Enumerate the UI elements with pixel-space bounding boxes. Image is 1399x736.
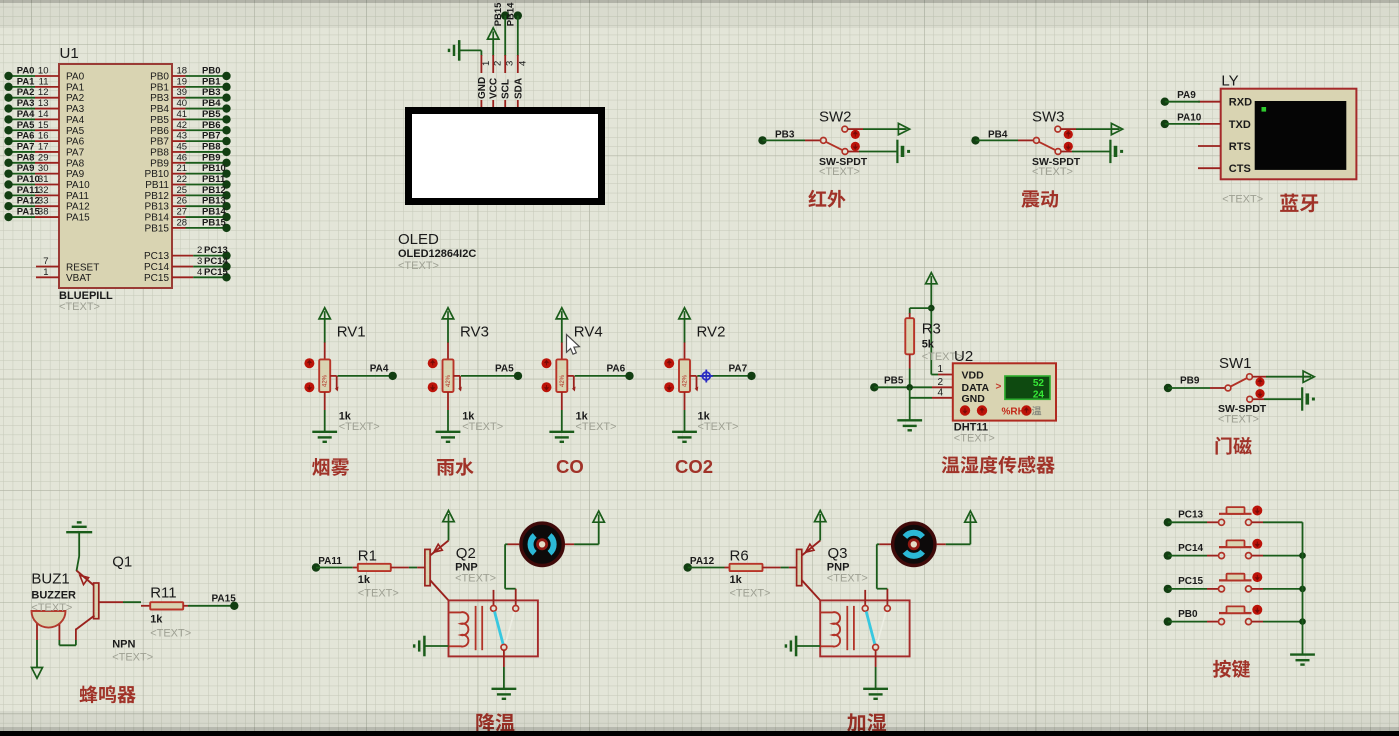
relay NC stub xyxy=(864,590,866,606)
ground (OLED GND pin) xyxy=(458,40,461,61)
power terminal (RV1 top) xyxy=(319,308,330,319)
wire button PB0 to bus xyxy=(1252,621,1263,623)
LY pin CTS xyxy=(1198,167,1221,169)
svg-text:5k: 5k xyxy=(922,339,935,351)
relay common stub xyxy=(515,589,517,606)
svg-text:PB11: PB11 xyxy=(145,180,169,191)
svg-text:PA9: PA9 xyxy=(66,169,85,180)
svg-text:PB14: PB14 xyxy=(202,207,226,218)
svg-text:1k: 1k xyxy=(358,574,371,586)
wire power to RV1 xyxy=(324,319,326,343)
U1 pin PB4 (pin 40) with wire and terminal xyxy=(172,108,186,110)
svg-text:PC13: PC13 xyxy=(1178,510,1203,521)
svg-text:1: 1 xyxy=(481,61,492,66)
U2 display readout xyxy=(1005,376,1050,399)
U1 pin PC13 (pin 2) with wire and terminal xyxy=(172,255,193,257)
resistor R3 xyxy=(909,313,911,318)
ground (RV3) xyxy=(436,431,461,433)
wire switch SW3 upper throw to power xyxy=(1061,128,1076,130)
svg-text:PA4: PA4 xyxy=(17,109,35,120)
transistor Q2 PNP xyxy=(425,549,430,585)
ground (RV2) xyxy=(672,431,697,433)
label 加湿 xyxy=(847,713,865,732)
svg-text:PB0: PB0 xyxy=(1178,609,1198,620)
terminal PB3 xyxy=(758,136,766,144)
svg-text:27: 27 xyxy=(177,207,188,218)
power terminal (RV2 top) xyxy=(679,308,690,319)
svg-text:SCL: SCL xyxy=(501,79,512,99)
label 雨水 xyxy=(437,459,454,476)
U1 pin PA15 (pin 38) with wire and terminal xyxy=(9,216,36,218)
svg-text:PC15: PC15 xyxy=(204,267,228,278)
svg-text:PA7: PA7 xyxy=(729,364,748,375)
svg-text:PA6: PA6 xyxy=(607,364,626,375)
label 蜂鸣器 xyxy=(80,685,98,703)
wire PA10 to LY TXD xyxy=(1165,123,1200,125)
power terminal (SW1 upper throw) xyxy=(1303,371,1314,382)
RV4 actuator indicators xyxy=(542,358,552,368)
LY pin RTS xyxy=(1198,145,1221,147)
LY screen xyxy=(1255,101,1347,170)
svg-text:PB3: PB3 xyxy=(775,129,795,140)
terminal PB4 xyxy=(971,136,979,144)
power terminal (motor) xyxy=(965,511,976,522)
potentiometer RV2 body xyxy=(679,359,690,392)
U1 pin PA0 (pin 10) with wire and terminal xyxy=(9,75,36,77)
relay moving contact xyxy=(501,644,507,650)
svg-text:PC15: PC15 xyxy=(144,273,169,284)
svg-text:PB5: PB5 xyxy=(884,376,904,387)
junction node on button bus xyxy=(1299,586,1306,593)
wire power to RV2 xyxy=(684,319,686,343)
switch SW3 actuator indicators xyxy=(1064,130,1073,139)
push button PC14 xyxy=(1219,553,1225,559)
OLED pin 3 SCL xyxy=(504,55,506,73)
svg-text:GND: GND xyxy=(962,393,986,405)
wire relay common to ground below xyxy=(503,650,505,667)
ground (U2) xyxy=(897,419,922,421)
button PC14 actuator indicator xyxy=(1252,539,1262,549)
svg-text:42%: 42% xyxy=(446,374,452,387)
svg-text:PB15: PB15 xyxy=(145,223,170,234)
RV4 wiper xyxy=(567,375,574,377)
wire PB9 to switch SW1 xyxy=(1168,387,1210,389)
U1 pin PB6 (pin 42) with wire and terminal xyxy=(172,129,186,131)
svg-text:40: 40 xyxy=(177,98,188,109)
button PC15 actuator indicator xyxy=(1252,572,1262,582)
label 烟雾 xyxy=(312,458,329,476)
U1 pin PB7 (pin 43) with wire and terminal xyxy=(172,140,186,142)
svg-text:52: 52 xyxy=(1033,378,1045,389)
relay coil xyxy=(449,612,469,646)
wire switch SW2 upper throw to power xyxy=(848,128,863,130)
svg-text:<TEXT>: <TEXT> xyxy=(1032,166,1073,178)
svg-text:PA9: PA9 xyxy=(1177,90,1196,101)
svg-text:42%: 42% xyxy=(560,374,566,387)
label 温湿度传感器 xyxy=(942,456,960,473)
svg-text:<TEXT>: <TEXT> xyxy=(827,573,868,585)
battery cell (SW1 lower throw) xyxy=(1301,387,1303,410)
svg-text:38: 38 xyxy=(38,207,49,218)
svg-text:<TEXT>: <TEXT> xyxy=(819,166,860,178)
wire PC14 to button xyxy=(1168,555,1207,557)
switch SW2 actuator indicators xyxy=(851,130,860,139)
wire VCC to OLED pin 2 xyxy=(492,39,494,56)
wire power to RV3 xyxy=(447,319,449,343)
svg-text:PA15: PA15 xyxy=(212,594,237,605)
svg-text:PB5: PB5 xyxy=(202,109,221,120)
svg-text:PA12: PA12 xyxy=(690,556,715,567)
svg-text:42: 42 xyxy=(177,120,188,131)
LY pin TXD xyxy=(1198,123,1221,125)
terminal PA7 xyxy=(747,372,755,380)
RV2 actuator indicators xyxy=(664,358,674,368)
svg-text:PB7: PB7 xyxy=(150,137,169,148)
terminal PA9 xyxy=(1161,98,1169,106)
svg-text:SW3: SW3 xyxy=(1032,109,1065,126)
svg-text:PB7: PB7 xyxy=(202,131,220,142)
svg-text:24: 24 xyxy=(1033,389,1045,400)
switch SW1 actuator indicators xyxy=(1255,377,1264,386)
svg-text:1k: 1k xyxy=(730,574,743,586)
U1 pin PC14 (pin 3) with wire and terminal xyxy=(172,266,193,268)
mouse cursor xyxy=(567,335,580,355)
terminal PA4 xyxy=(389,372,397,380)
transistor Q1 NPN xyxy=(77,571,95,587)
OLED pin 4 SDA xyxy=(517,55,519,73)
svg-text:PA15: PA15 xyxy=(66,213,90,224)
svg-text:12: 12 xyxy=(38,87,49,98)
svg-text:PA11: PA11 xyxy=(17,185,40,196)
svg-text:%RH: %RH xyxy=(1002,406,1025,417)
ground (relay common) xyxy=(863,688,888,690)
svg-text:25: 25 xyxy=(177,185,188,196)
svg-text:PB10: PB10 xyxy=(202,163,226,174)
resistor R1 xyxy=(358,564,391,571)
relay body xyxy=(820,600,909,656)
svg-text:11: 11 xyxy=(39,76,49,87)
svg-text:VBAT: VBAT xyxy=(66,273,91,284)
svg-text:PB1: PB1 xyxy=(150,82,169,93)
svg-text:SW1: SW1 xyxy=(1219,355,1252,372)
svg-text:14: 14 xyxy=(38,109,49,120)
label 红外 xyxy=(808,190,826,207)
wire switch SW3 lower throw to battery xyxy=(1061,151,1072,153)
svg-text:PA5: PA5 xyxy=(17,120,35,131)
junction node on button bus xyxy=(1299,552,1306,559)
svg-text:PB6: PB6 xyxy=(202,120,220,131)
U1 pin PB10 (pin 21) with wire and terminal xyxy=(172,173,186,175)
svg-text:RESET: RESET xyxy=(66,262,99,273)
relay NC stub xyxy=(493,590,495,606)
wire RV1 bottom to ground xyxy=(324,392,326,410)
svg-text:PB4: PB4 xyxy=(988,129,1008,140)
ground (buzzer emitter, inverted) xyxy=(66,531,92,533)
svg-text:PC15: PC15 xyxy=(1178,576,1203,587)
svg-text:3: 3 xyxy=(197,256,202,267)
svg-text:16: 16 xyxy=(38,131,49,142)
svg-text:PA8: PA8 xyxy=(17,152,35,163)
svg-text:Q1: Q1 xyxy=(112,554,132,571)
potentiometer RV1 body xyxy=(319,359,330,392)
potentiometer RV4 body xyxy=(556,359,567,392)
svg-text:R1: R1 xyxy=(358,548,377,565)
svg-text:PA5: PA5 xyxy=(66,126,85,137)
svg-text:PC13: PC13 xyxy=(204,245,228,256)
OLED pin 2 VCC xyxy=(492,55,494,73)
U1 pin PA9 (pin 30) with wire and terminal xyxy=(9,173,36,175)
U1 pin PA2 (pin 12) with wire and terminal xyxy=(9,97,36,99)
svg-text:39: 39 xyxy=(177,87,188,98)
origin marker on PA7 wire xyxy=(700,370,713,383)
microcontroller U1 BLUEPILL body xyxy=(59,64,172,288)
svg-text:TXD: TXD xyxy=(1229,119,1251,131)
ground (buttons) xyxy=(1290,653,1315,655)
button PC13 actuator indicator xyxy=(1252,506,1262,516)
svg-text:PA0: PA0 xyxy=(66,72,85,83)
ground (relay coil, rotated) xyxy=(795,636,798,657)
svg-text:1: 1 xyxy=(937,364,943,375)
terminal PC15 xyxy=(1164,585,1172,593)
wire PA11 to R1 xyxy=(316,567,353,569)
svg-text:>: > xyxy=(996,382,1002,393)
svg-text:PB15: PB15 xyxy=(202,217,226,228)
svg-text:PA10: PA10 xyxy=(17,174,40,185)
U1 pin PB0 (pin 18) with wire and terminal xyxy=(172,75,186,77)
power terminal (RV3 top) xyxy=(442,308,453,319)
terminal PA15 xyxy=(230,602,238,610)
power terminal (Q3 emitter) xyxy=(815,511,826,522)
svg-text:RV3: RV3 xyxy=(460,323,489,340)
svg-text:15: 15 xyxy=(38,120,49,131)
svg-text:PA3: PA3 xyxy=(17,98,35,109)
svg-text:PA7: PA7 xyxy=(66,147,85,158)
ground (RV1) xyxy=(312,431,337,433)
wire button PC13 to bus xyxy=(1252,521,1263,523)
svg-text:R6: R6 xyxy=(730,548,749,565)
svg-text:BUZZER: BUZZER xyxy=(31,590,76,602)
svg-text:RV4: RV4 xyxy=(574,323,603,340)
label 蓝牙 xyxy=(1280,194,1298,212)
power terminal (motor) xyxy=(593,511,604,522)
terminal PC14 xyxy=(1164,551,1172,559)
U1 pin PB8 (pin 45) with wire and terminal xyxy=(172,151,186,153)
wire R6 to Q3 base xyxy=(763,567,781,569)
wire relay common to ground below xyxy=(875,650,877,667)
button PB0 actuator indicator xyxy=(1252,605,1262,615)
wire R3 bottom to DATA junction xyxy=(909,369,911,388)
svg-text:26: 26 xyxy=(177,196,188,207)
svg-text:PA4: PA4 xyxy=(66,115,85,126)
svg-text:PB5: PB5 xyxy=(150,115,169,126)
wire PB15 to OLED pin 3 xyxy=(504,16,506,56)
svg-text:<TEXT>: <TEXT> xyxy=(954,433,995,445)
U1 pin PA6 (pin 16) with wire and terminal xyxy=(9,140,36,142)
relay core xyxy=(846,606,848,650)
svg-text:GND: GND xyxy=(477,77,488,99)
svg-text:SDA: SDA xyxy=(513,78,524,99)
svg-text:PA6: PA6 xyxy=(17,131,35,142)
svg-text:VCC: VCC xyxy=(489,78,500,99)
wire RV3 bottom to ground xyxy=(447,392,449,410)
svg-text:PA2: PA2 xyxy=(66,93,85,104)
svg-text:3: 3 xyxy=(505,61,516,66)
svg-text:19: 19 xyxy=(177,76,188,87)
svg-text:22: 22 xyxy=(177,174,188,185)
svg-text:PB8: PB8 xyxy=(150,147,169,158)
push button PC13 xyxy=(1219,519,1225,525)
svg-text:OLED12864I2C: OLED12864I2C xyxy=(398,248,476,260)
svg-text:<TEXT>: <TEXT> xyxy=(1222,194,1263,206)
svg-text:Q2: Q2 xyxy=(456,545,476,562)
svg-text:PA12: PA12 xyxy=(66,202,90,213)
svg-text:<TEXT>: <TEXT> xyxy=(31,602,72,614)
ground (relay coil, rotated) xyxy=(423,636,426,657)
svg-text:PA3: PA3 xyxy=(66,104,85,115)
svg-text:1: 1 xyxy=(43,267,48,278)
svg-text:4: 4 xyxy=(937,387,943,398)
wire motor right to power xyxy=(937,543,946,545)
RV3 wiper xyxy=(453,375,460,377)
wire PA12 to R6 xyxy=(688,567,725,569)
svg-text:Q3: Q3 xyxy=(828,545,848,562)
svg-text:4: 4 xyxy=(517,61,528,66)
resistor R6 xyxy=(730,564,763,571)
wire RV2 bottom to ground xyxy=(684,392,686,410)
U1 pin RESET (pin 7) xyxy=(36,266,59,268)
terminal PA10 xyxy=(1161,120,1169,128)
svg-text:CTS: CTS xyxy=(1229,163,1251,175)
wire SW1 lower throw to battery xyxy=(1253,398,1264,400)
label 震动 xyxy=(1021,190,1039,207)
svg-text:BUZ1: BUZ1 xyxy=(31,571,69,588)
U2 VDD pin wire xyxy=(931,374,938,376)
terminal PA5 xyxy=(514,372,522,380)
svg-text:PB4: PB4 xyxy=(202,98,221,109)
wire button PC15 to bus xyxy=(1252,588,1263,590)
svg-text:PA8: PA8 xyxy=(66,158,85,169)
wire RV1 wiper to PA4 xyxy=(338,375,393,377)
wire ground to Q1 emitter xyxy=(78,532,80,556)
svg-text:31: 31 xyxy=(38,174,49,185)
potentiometer RV3 body xyxy=(443,359,454,392)
svg-text:PA9: PA9 xyxy=(17,163,35,174)
wire coil ground xyxy=(796,645,820,647)
wire RV4 wiper to PA6 xyxy=(575,375,630,377)
svg-text:PC13: PC13 xyxy=(144,251,169,262)
U1 pin PB14 (pin 27) with wire and terminal xyxy=(172,216,186,218)
U1 pin PA10 (pin 31) with wire and terminal xyxy=(9,184,36,186)
U1 pin PA1 (pin 11) with wire and terminal xyxy=(9,86,36,88)
svg-text:1k: 1k xyxy=(150,614,163,626)
U2 actuator indicators xyxy=(960,405,970,415)
terminal PA12 xyxy=(684,563,692,571)
U1 pin PB12 (pin 25) with wire and terminal xyxy=(172,194,186,196)
svg-text:PB3: PB3 xyxy=(150,93,169,104)
U1 pin PB9 (pin 46) with wire and terminal xyxy=(172,162,186,164)
wire RV4 bottom to ground xyxy=(561,392,563,410)
wire R11 to PA15 xyxy=(188,605,234,607)
buzzer BUZ1 body xyxy=(36,622,38,640)
svg-text:PA11: PA11 xyxy=(318,556,342,567)
wire PC13 to button xyxy=(1168,521,1207,523)
motor xyxy=(893,523,935,565)
wire motor right to power xyxy=(565,543,574,545)
wire power to RV4 xyxy=(561,319,563,343)
wire Q2 emitter to power xyxy=(448,522,450,541)
label 门磁 xyxy=(1216,437,1232,455)
output terminal (buzzer, down arrow) xyxy=(32,668,43,679)
wire motor left to relay common xyxy=(879,543,891,545)
svg-text:2: 2 xyxy=(937,377,943,388)
relay common stub xyxy=(886,589,888,606)
U1 pin PA8 (pin 29) with wire and terminal xyxy=(9,162,36,164)
RV1 wiper xyxy=(330,375,337,377)
svg-text:RV2: RV2 xyxy=(697,323,726,340)
wire PC15 to button xyxy=(1168,588,1207,590)
wire R1 to Q2 base xyxy=(391,567,409,569)
transistor Q3 PNP xyxy=(797,549,802,585)
svg-text:NPN: NPN xyxy=(112,639,135,651)
svg-text:PB8: PB8 xyxy=(202,141,220,152)
svg-text:PA2: PA2 xyxy=(17,87,35,98)
svg-text:30: 30 xyxy=(38,163,49,174)
svg-text:<TEXT>: <TEXT> xyxy=(150,628,191,640)
svg-text:PC14: PC14 xyxy=(1178,543,1203,554)
OLED pin 1 GND xyxy=(480,55,482,73)
svg-text:<TEXT>: <TEXT> xyxy=(698,421,739,433)
wire Q1 collector to buzzer xyxy=(75,629,77,640)
terminal PA11 xyxy=(312,563,320,571)
svg-text:<TEXT>: <TEXT> xyxy=(358,588,399,600)
wire PB5 to U2 DATA xyxy=(874,386,932,388)
wire motor left to relay common xyxy=(508,543,520,545)
svg-text:46: 46 xyxy=(177,152,188,163)
OLED display body xyxy=(405,107,605,205)
resistor R11 xyxy=(141,605,150,607)
terminal PA6 xyxy=(625,372,633,380)
svg-text:45: 45 xyxy=(177,141,188,152)
wire PA9 to LY RXD xyxy=(1165,101,1200,103)
terminal PC13 xyxy=(1164,518,1172,526)
svg-text:<TEXT>: <TEXT> xyxy=(455,573,496,585)
U1 pin PA11 (pin 32) with wire and terminal xyxy=(9,194,36,196)
button ground bus wire xyxy=(1302,522,1304,654)
wire button PC14 to bus xyxy=(1252,555,1263,557)
wire RV3 wiper to PA5 xyxy=(461,375,518,377)
svg-text:RTS: RTS xyxy=(1229,141,1251,153)
U1 pin VBAT (pin 1) xyxy=(36,276,59,278)
ground (relay common) xyxy=(492,688,517,690)
svg-text:<TEXT>: <TEXT> xyxy=(112,652,153,664)
wire PB3 to switch SW2 xyxy=(763,139,806,141)
wire PB0 to button xyxy=(1168,621,1207,623)
svg-text:PC14: PC14 xyxy=(204,256,228,267)
svg-text:SW2: SW2 xyxy=(819,109,852,126)
power terminal (Q2 emitter) xyxy=(443,511,454,522)
relay core xyxy=(475,606,477,650)
push button PB0 xyxy=(1219,619,1225,625)
push button PC15 xyxy=(1219,586,1225,592)
svg-text:PA4: PA4 xyxy=(370,364,389,375)
motor xyxy=(521,523,563,565)
svg-text:PA10: PA10 xyxy=(66,180,90,191)
svg-text:4: 4 xyxy=(197,267,202,278)
svg-text:RXD: RXD xyxy=(1229,97,1252,109)
junction node on DATA xyxy=(906,384,913,391)
svg-text:21: 21 xyxy=(177,163,188,174)
junction node xyxy=(928,305,935,312)
